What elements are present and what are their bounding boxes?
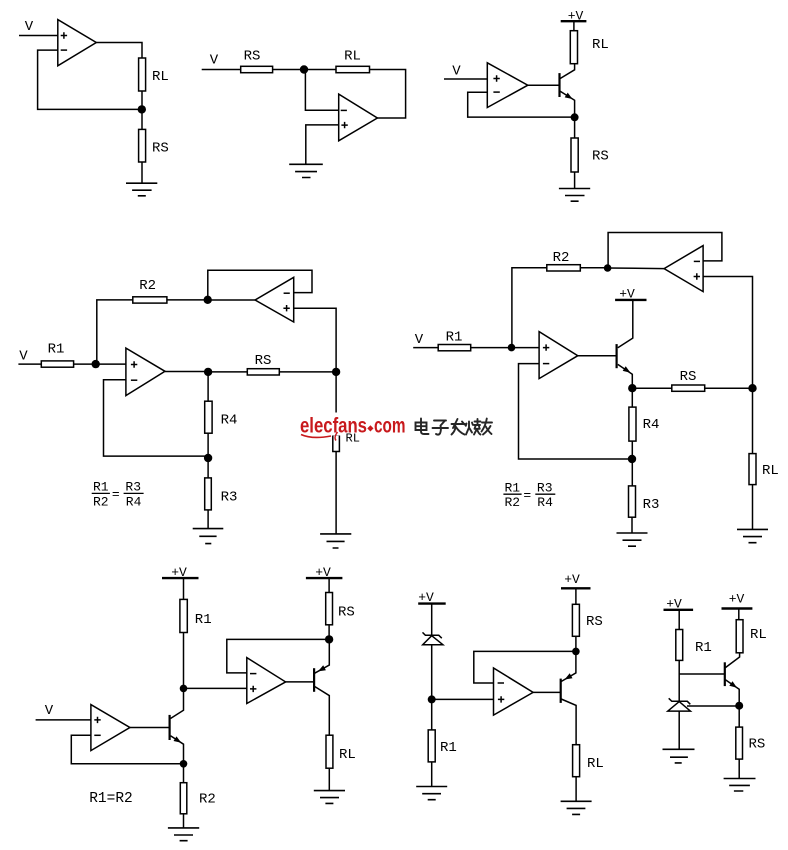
wire node to U9 + input — [184, 687, 247, 689]
wire RL to RS — [141, 91, 143, 129]
wire V to op-amp U1 + input — [19, 35, 58, 37]
wire R4 to R3 (circuit 5) — [631, 441, 633, 486]
U2 + pin mark — [341, 122, 347, 128]
resistor R2 (circuit 5) — [547, 265, 581, 271]
Q1 emitter arrow — [565, 93, 573, 99]
op-amp U6 — [539, 332, 578, 379]
node junction RS-RL-U5 input — [332, 368, 340, 376]
resistor RL (circuit 1) — [139, 58, 146, 91]
svg-text:R1: R1 — [93, 480, 109, 495]
wire U3 output to Q1 base — [528, 84, 560, 86]
wire +V to R1 — [183, 578, 185, 599]
wire U9 output to Q4 base — [286, 681, 314, 683]
wire U1 output to RL — [96, 43, 142, 59]
svg-text:R1: R1 — [440, 740, 457, 756]
wire RS to node — [575, 636, 577, 651]
watermark logo swoosh — [301, 435, 331, 438]
resistor RS (circuit 6) — [326, 593, 333, 625]
U10 + pin mark — [498, 696, 504, 702]
svg-text:V: V — [415, 332, 424, 348]
wire node to R4 — [207, 372, 209, 401]
Q2 emitter arrow — [623, 366, 631, 373]
resistor RS (circuit 8) — [736, 727, 743, 759]
wire RS to right node — [705, 387, 753, 389]
resistor RS (circuit 7) — [572, 604, 579, 636]
op-amp U3 — [487, 63, 528, 108]
resistor RL (circuit 6) — [326, 735, 333, 768]
svg-text:V: V — [210, 53, 219, 69]
Q4 collector — [315, 687, 330, 736]
svg-text:RL: RL — [152, 69, 169, 85]
U5 - pin mark — [284, 292, 290, 294]
op-amp U2 — [339, 94, 378, 141]
zener D1 anode triangle — [423, 636, 443, 645]
wire +V to RL (circuit 8) — [738, 609, 740, 620]
wire RS to ground — [141, 162, 143, 183]
wire emitter node to RS (circuit 3) — [574, 117, 576, 138]
power +V bar (circuit 8 left) — [664, 609, 694, 611]
node junction R2-output-feedback — [204, 296, 212, 304]
node junction RL-RS-feedback — [138, 105, 146, 113]
resistor R1 (circuit 7) — [428, 730, 435, 762]
formula R1/R2 = R3/R4 (circuit 4) — [93, 480, 142, 510]
Q4 emitter (to RS node) — [315, 639, 330, 673]
Q6 emitter arrow — [729, 681, 737, 688]
wire +V to R1 (circuit 8) — [678, 610, 680, 630]
zener diode D2 cathode bar — [669, 698, 691, 704]
U8 - pin mark — [94, 734, 100, 736]
svg-text:V: V — [19, 349, 28, 365]
resistor RL (circuit 7) — [573, 745, 580, 777]
power +V bar (circuit 8 right) — [722, 607, 753, 609]
op-amp U5 (left pointing) — [255, 277, 294, 322]
Q3 emitter — [171, 736, 184, 764]
wire RS to ground — [574, 172, 576, 189]
ground (circuit 7) — [561, 801, 592, 814]
svg-text:RL: RL — [750, 627, 767, 643]
resistor R1 (circuit 8) — [676, 630, 683, 661]
wire RS to ground (circuit 8) — [738, 759, 740, 778]
Q1 emitter — [560, 91, 574, 117]
U2 - pin mark — [341, 109, 347, 111]
wire R1 to U6 + input — [471, 347, 539, 349]
watermark logo dot — [367, 425, 373, 431]
resistor RL (circuit 5) — [749, 454, 756, 485]
node junction R1-collector-U9 + input — [180, 685, 188, 693]
wire feedback to U9 - input — [227, 639, 329, 673]
resistor RL (circuit 3) — [570, 31, 577, 64]
resistor RL (circuit 4) — [333, 435, 340, 452]
node junction emitter-RS-feedback — [571, 113, 579, 121]
watermark logo descender — [335, 432, 337, 441]
wire R2 to node / to input column — [512, 268, 608, 348]
transistor Q5 base bar — [560, 679, 562, 703]
svg-text:=: = — [112, 487, 120, 502]
wire U6 output to Q2 base — [578, 355, 617, 357]
zener diode D1 cathode bar — [423, 632, 442, 638]
U7 - pin mark — [694, 260, 700, 262]
resistor RS (circuit 4) — [247, 369, 279, 375]
power +V bar (circuit 5) — [615, 299, 646, 301]
wire +V to RS — [328, 578, 330, 592]
wire node to R2 — [183, 764, 185, 783]
svg-text:V: V — [25, 19, 34, 35]
node junction RS-RL-inverting input — [300, 65, 308, 73]
ground (circuit 4 R3) — [193, 529, 224, 544]
wire R4 to R3 — [207, 433, 209, 478]
svg-text:V: V — [452, 64, 461, 80]
wire feedback to U1 - input — [38, 50, 142, 109]
node junction output-RS-R4 — [204, 368, 212, 376]
svg-text:R4: R4 — [126, 494, 142, 509]
wire D2 to emitter node — [687, 705, 739, 707]
svg-text:RS: RS — [338, 605, 355, 621]
resistor R1 (circuit 4) — [41, 361, 73, 367]
U3 - pin mark — [493, 91, 499, 93]
U1 - pin mark — [61, 49, 67, 51]
svg-text:RS: RS — [152, 141, 169, 157]
wire node to RS (circuit 8) — [738, 706, 740, 727]
wire node to Q3 collector — [171, 688, 184, 718]
svg-text:RL: RL — [587, 756, 604, 772]
svg-text:RS: RS — [749, 737, 766, 753]
U4 + pin mark — [131, 361, 137, 367]
Q2 emitter — [618, 364, 633, 388]
ground (circuit 2) — [289, 164, 323, 177]
wire +V to RL — [573, 21, 575, 31]
power +V bar (circuit 6 right) — [306, 577, 343, 579]
wire U4 output to RS node — [165, 371, 208, 373]
wire D1 to node — [431, 645, 433, 700]
U1 + pin mark — [61, 32, 67, 38]
wire node down to RL — [335, 372, 337, 435]
wire D2 to ground — [678, 711, 680, 749]
wire feedback to U8 - input — [71, 735, 183, 764]
wire node to Q6 base — [679, 673, 725, 675]
op-amp U1 — [58, 20, 97, 66]
svg-text:R1: R1 — [446, 330, 463, 346]
svg-text:R2: R2 — [553, 250, 570, 266]
wire feedback loop to U5 - input — [208, 270, 312, 300]
node junction RS-RL-U7 input (circuit 5) — [748, 384, 756, 392]
Q6 emitter — [725, 680, 739, 706]
svg-text:R2: R2 — [139, 278, 156, 294]
svg-text:+V: +V — [564, 572, 580, 587]
Q5 emitter (to RS node) — [561, 651, 576, 681]
wire U5 output to node — [208, 299, 255, 301]
node junction emitter-RS-R4 (circuit 5) — [628, 384, 636, 392]
wire U5 + input to RS node — [294, 308, 336, 372]
resistor R1 (circuit 5) — [438, 345, 471, 351]
U4 - pin mark — [131, 379, 137, 381]
node junction R4-R3-feedback — [204, 454, 212, 462]
resistor R4 (circuit 4) — [205, 401, 212, 433]
wire V to U3 + input — [444, 78, 487, 80]
wire U8 output to Q3 base — [130, 727, 170, 729]
power +V bar (circuit 7 mid) — [561, 587, 591, 589]
wire R1 to zener D2 — [678, 660, 680, 701]
wire node to RS — [632, 387, 672, 389]
svg-text:R4: R4 — [643, 417, 660, 433]
ground (circuit 4 RL) — [320, 534, 351, 548]
wire R2 to ground — [183, 814, 185, 828]
Q6 collector — [725, 653, 739, 668]
node junction R4-R3-feedback (circuit 5) — [628, 455, 636, 463]
svg-text:R3: R3 — [643, 497, 660, 513]
wire V to U8 + input — [36, 719, 91, 721]
watermark chinese char dian — [416, 419, 429, 435]
node junction D1-R1-U10 + input — [428, 695, 436, 703]
U5 + pin mark — [283, 305, 289, 311]
svg-text:R1=R2: R1=R2 — [89, 791, 133, 807]
ground (circuit 8 left) — [663, 749, 695, 763]
power +V bar (circuit 6 left) — [162, 577, 199, 579]
wire RL to ground (circuit 7) — [575, 777, 577, 802]
resistor R2 (circuit 6) — [180, 783, 187, 814]
wire +V to zener D1 — [431, 604, 433, 636]
transistor Q1 base bar — [558, 73, 560, 97]
power +V bar — [561, 20, 587, 22]
wire R3 to ground — [207, 510, 209, 529]
resistor R1 (circuit 6) — [180, 599, 187, 632]
svg-text:RS: RS — [680, 369, 697, 385]
wire R1 to ground — [431, 762, 433, 787]
wire U7 output to node — [608, 267, 665, 270]
Q4 emitter arrow (PNP) — [318, 665, 326, 671]
wire node to U2 - input — [305, 70, 338, 111]
zener D2 anode triangle — [668, 702, 691, 712]
ground (circuit 6 right) — [314, 791, 345, 804]
svg-text:RS: RS — [592, 149, 609, 165]
formula R1/R2 = R3/R4 (circuit 5) — [504, 480, 553, 510]
resistor RL (circuit 2) — [336, 66, 370, 72]
svg-text:V: V — [45, 703, 54, 719]
watermark white background — [296, 413, 494, 436]
op-amp U4 — [126, 348, 165, 396]
resistor RS (circuit 2) — [241, 66, 273, 72]
ground (circuit 7 left) — [416, 787, 447, 800]
U3 + pin mark — [493, 75, 499, 81]
svg-text:R1: R1 — [195, 612, 212, 628]
wire R2 to node / to input column — [97, 300, 208, 364]
svg-text:=: = — [523, 488, 531, 503]
ground (circuit 5 RL) — [737, 529, 768, 542]
node junction emitter-R2-feedback — [180, 760, 188, 768]
U10 - pin mark — [498, 682, 504, 684]
watermark chinese char you — [482, 419, 493, 435]
U9 - pin mark — [250, 673, 256, 675]
ground (circuit 8 right) — [724, 779, 756, 792]
U9 + pin mark — [250, 686, 256, 692]
watermark chinese char fa — [452, 419, 466, 435]
wire RL to U2 output loop — [370, 70, 406, 119]
U8 + pin mark — [94, 717, 100, 723]
op-amp U7 (left pointing) — [664, 246, 703, 292]
watermark chinese char shao — [466, 419, 481, 435]
formula fraction bars (circuit 5) — [503, 493, 555, 495]
node junction RS-emitter-feedback (circuit 6) — [325, 635, 333, 643]
wire U10 - input feedback to RS node — [474, 651, 576, 683]
wire V to R1 — [413, 347, 438, 349]
wire U10 output to Q5 base — [533, 691, 561, 693]
wire RL to ground — [328, 768, 330, 790]
svg-text:R3: R3 — [125, 480, 141, 495]
ground (circuit 5 R3) — [617, 533, 648, 546]
resistor RL (circuit 8) — [736, 620, 743, 653]
wire +V to RS (circuit 7) — [575, 588, 577, 604]
wire RL to ground — [335, 452, 337, 534]
wire feedback U3 - input to emitter node — [468, 92, 575, 117]
node junction R1-R2-input (circuit 5) — [508, 344, 516, 352]
svg-text:+V: +V — [729, 592, 745, 607]
resistor R2 (circuit 4) — [133, 297, 167, 303]
wire V to R1 — [18, 363, 41, 365]
wire feedback loop to U7 - input — [608, 233, 722, 269]
Q5 collector — [561, 699, 576, 745]
wire node to U10 + input — [432, 698, 494, 700]
wire R1 to U4 + input — [74, 363, 126, 365]
svg-text:RL: RL — [344, 49, 361, 65]
svg-text:R1: R1 — [504, 480, 520, 495]
U7 + pin mark — [694, 273, 700, 279]
wire node to R1 (circuit 7) — [431, 699, 433, 730]
svg-text:R2: R2 — [199, 792, 216, 808]
resistor RS (circuit 1) — [139, 129, 146, 162]
wire R3 to ground (circuit 5) — [631, 517, 633, 533]
U6 + pin mark — [543, 344, 549, 350]
node junction R2-output-feedback (circuit 5) — [604, 264, 612, 272]
ground (circuit 3) — [559, 189, 590, 202]
svg-text:RL: RL — [762, 463, 779, 479]
wire RL to Q1 collector — [560, 64, 574, 79]
node junction RS-emitter-feedback (circuit 7) — [572, 648, 580, 656]
Q5 emitter arrow (PNP) — [565, 673, 573, 679]
resistor RS (circuit 5) — [672, 385, 705, 391]
svg-text:com: com — [374, 415, 406, 438]
svg-text:R3: R3 — [221, 490, 238, 506]
resistor RS (circuit 3) — [571, 138, 578, 172]
node junction R1-R2-input — [92, 360, 100, 368]
node junction emitter-RS-zener (circuit 8) — [735, 702, 743, 710]
wire node to RS to right node — [208, 371, 336, 373]
op-amp U8 — [91, 705, 130, 751]
ground (circuit 6 left) — [168, 828, 199, 841]
U6 - pin mark — [543, 363, 549, 365]
svg-text:RL: RL — [346, 431, 360, 445]
wire +V to Q2 collector — [618, 300, 633, 348]
wire U7 + input down to right node — [703, 277, 752, 389]
svg-text:R2: R2 — [93, 494, 109, 509]
op-amp U9 — [247, 658, 286, 704]
wire RS to node — [328, 625, 330, 640]
wire V to RS — [202, 69, 241, 71]
svg-text:RL: RL — [339, 747, 356, 763]
wire RS to RL through node — [273, 69, 336, 71]
wire U2 + input to ground — [306, 125, 339, 164]
wire node to R4 (circuit 5) — [631, 388, 633, 407]
power +V bar (circuit 7 left) — [418, 602, 446, 604]
svg-text:RS: RS — [586, 614, 603, 630]
resistor R4 (circuit 5) — [629, 407, 636, 441]
wire R1 to node — [183, 633, 185, 689]
svg-text:RS: RS — [244, 49, 261, 65]
transistor Q3 base bar — [169, 715, 171, 740]
formula fraction bars (circuit 4) — [92, 492, 144, 494]
svg-text:R2: R2 — [504, 495, 520, 510]
transistor Q6 base bar — [724, 662, 726, 686]
ground (circuit 1) — [126, 183, 157, 196]
watermark chinese char zi — [433, 421, 449, 435]
transistor Q4 base bar — [313, 668, 315, 692]
wire RL to ground — [752, 485, 754, 530]
svg-text:R1: R1 — [695, 640, 712, 656]
wire U6 - input feedback — [519, 364, 633, 459]
svg-text:R1: R1 — [48, 342, 65, 358]
wire U4 - input feedback — [104, 380, 209, 456]
svg-text:R4: R4 — [537, 495, 553, 510]
svg-text:R4: R4 — [221, 413, 238, 429]
transistor Q2 base bar — [615, 344, 617, 368]
svg-text:RL: RL — [592, 37, 609, 53]
Q3 emitter arrow — [174, 736, 182, 742]
svg-text:R3: R3 — [537, 480, 553, 495]
op-amp U10 — [494, 668, 534, 715]
resistor R3 (circuit 4) — [205, 478, 212, 510]
svg-text:RS: RS — [255, 353, 272, 369]
resistor R3 (circuit 5) — [629, 486, 636, 517]
wire node to RL — [752, 388, 754, 453]
